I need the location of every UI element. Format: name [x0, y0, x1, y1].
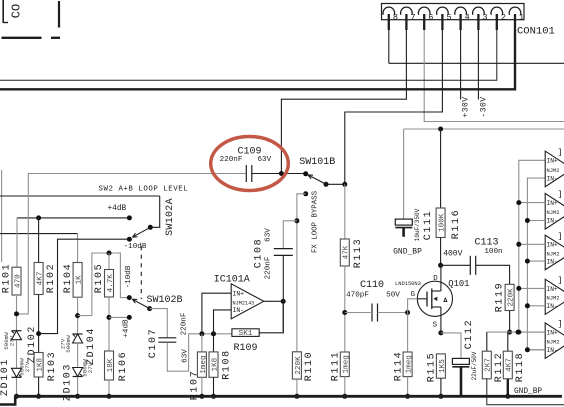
svg-text:4K7: 4K7	[506, 358, 514, 372]
svg-text:C107: C107	[148, 328, 159, 358]
svg-text:C110: C110	[360, 280, 384, 291]
svg-text:R119: R119	[495, 282, 506, 312]
svg-text:10uF/350V: 10uF/350V	[414, 208, 421, 241]
svg-text:2: 2	[501, 13, 506, 23]
svg-text:220nF: 220nF	[220, 156, 243, 164]
svg-text:]: ]	[557, 190, 562, 200]
svg-text:R103: R103	[47, 351, 58, 381]
svg-text:4K7: 4K7	[37, 272, 45, 286]
svg-text:IN+: IN+	[547, 242, 558, 249]
svg-text:R101: R101	[2, 263, 13, 293]
svg-text:CO: CO	[10, 4, 24, 18]
svg-text:SW101B: SW101B	[299, 157, 335, 168]
svg-text:IN+: IN+	[547, 158, 558, 165]
svg-text:G: G	[411, 291, 416, 299]
svg-text:NJM2143: NJM2143	[233, 301, 255, 307]
svg-text:R118: R118	[515, 352, 526, 382]
svg-text:1meg: 1meg	[200, 355, 208, 373]
svg-text:IN-: IN-	[547, 347, 558, 354]
svg-text:1meg: 1meg	[343, 355, 351, 373]
svg-text:LND150N3: LND150N3	[395, 281, 421, 287]
svg-text:NJM2: NJM2	[547, 168, 560, 174]
svg-text:220K: 220K	[295, 356, 303, 375]
svg-text:IN+: IN+	[547, 200, 558, 207]
svg-text:ZD101: ZD101	[0, 358, 11, 396]
svg-text:IN-: IN-	[547, 175, 558, 182]
svg-text:C111: C111	[423, 210, 434, 240]
svg-text:500mW: 500mW	[65, 335, 72, 353]
svg-text:220K: 220K	[508, 288, 516, 307]
svg-text:+30V: +30V	[462, 96, 471, 117]
svg-text:R105: R105	[94, 263, 105, 293]
svg-text:47K: 47K	[343, 245, 351, 259]
svg-text:C108: C108	[254, 238, 265, 268]
svg-text:]: ]	[557, 275, 562, 285]
svg-text:IN+: IN+	[547, 330, 558, 337]
svg-text:R114: R114	[393, 351, 404, 381]
svg-text:18K: 18K	[107, 358, 115, 372]
svg-text:SK1: SK1	[239, 330, 253, 338]
svg-text:100n: 100n	[484, 248, 502, 256]
svg-text:4: 4	[465, 13, 470, 23]
svg-text:IN-: IN-	[233, 307, 245, 314]
svg-text:NJM2: NJM2	[547, 296, 560, 302]
svg-text:R106: R106	[118, 351, 129, 381]
svg-text:27V: 27V	[87, 362, 94, 373]
svg-text:400V: 400V	[443, 249, 462, 258]
svg-text:C112: C112	[464, 319, 475, 349]
svg-text:-10dB: -10dB	[125, 265, 133, 288]
svg-text:5: 5	[446, 13, 451, 23]
svg-text:3: 3	[482, 13, 487, 23]
svg-text:IN+: IN+	[547, 286, 558, 293]
svg-text:NJM2: NJM2	[547, 340, 560, 346]
svg-text:1: 1	[519, 13, 524, 23]
svg-text:+4dB: +4dB	[123, 319, 131, 338]
svg-text:4.7K: 4.7K	[107, 274, 115, 293]
svg-text:GND_BP: GND_BP	[514, 388, 542, 396]
svg-text:63V: 63V	[264, 228, 272, 242]
svg-text:470: 470	[14, 274, 22, 288]
svg-text:Q101: Q101	[448, 279, 469, 289]
svg-text:]: ]	[557, 319, 562, 329]
svg-text:GND_BP: GND_BP	[393, 248, 422, 257]
svg-text:100K: 100K	[439, 213, 447, 232]
svg-text:220nF: 220nF	[264, 256, 272, 279]
svg-text:]: ]	[557, 147, 562, 157]
svg-text:D: D	[433, 275, 438, 283]
svg-text:NJM2: NJM2	[547, 251, 560, 257]
svg-text:R116: R116	[451, 209, 462, 239]
svg-text:R102: R102	[46, 263, 57, 293]
svg-text:50V: 50V	[386, 292, 400, 300]
svg-text:SW102B: SW102B	[147, 295, 183, 306]
svg-text:22uF/50V: 22uF/50V	[471, 351, 478, 380]
svg-text:470pF: 470pF	[346, 292, 369, 300]
svg-text:8: 8	[393, 13, 398, 23]
svg-text:C113: C113	[474, 238, 498, 249]
svg-text:1K5: 1K5	[439, 359, 447, 373]
svg-text:1K8: 1K8	[211, 357, 219, 371]
svg-text:27V: 27V	[9, 335, 16, 346]
svg-text:1K: 1K	[76, 275, 84, 285]
svg-text:2K7: 2K7	[485, 358, 493, 372]
svg-text:63V: 63V	[257, 156, 271, 164]
svg-text:CON101: CON101	[517, 26, 555, 38]
svg-text:R112: R112	[494, 352, 505, 382]
svg-text:1meg: 1meg	[406, 355, 414, 373]
svg-text:IN-: IN-	[547, 218, 558, 225]
svg-text:R113: R113	[353, 238, 364, 268]
svg-text:NJM2: NJM2	[547, 210, 560, 216]
svg-text:1K8: 1K8	[37, 357, 45, 371]
svg-text:6: 6	[428, 13, 433, 23]
svg-text:63V: 63V	[181, 349, 189, 363]
svg-text:R110: R110	[304, 351, 315, 381]
svg-text:FX LOOP BYPASS: FX LOOP BYPASS	[311, 190, 319, 253]
svg-text:R104: R104	[63, 263, 74, 293]
svg-text:+4dB: +4dB	[108, 205, 127, 213]
svg-text:SW102A: SW102A	[165, 198, 176, 236]
svg-text:R109: R109	[233, 343, 257, 354]
svg-text:7: 7	[410, 13, 415, 23]
svg-text:R108: R108	[222, 349, 233, 379]
svg-text:-30V: -30V	[480, 96, 489, 117]
svg-text:]: ]	[557, 231, 562, 241]
svg-text:220nF: 220nF	[180, 312, 188, 335]
svg-text:IN-: IN-	[547, 258, 558, 265]
svg-text:R115: R115	[427, 352, 438, 382]
svg-text:-10dB: -10dB	[124, 243, 147, 251]
svg-text:IC101A: IC101A	[214, 275, 250, 286]
svg-text:S: S	[433, 322, 438, 330]
svg-text:R111: R111	[331, 351, 342, 381]
svg-text:IN+: IN+	[233, 291, 245, 298]
svg-text:27V: 27V	[24, 361, 31, 372]
svg-text:SW2 A+B LOOP LEVEL: SW2 A+B LOOP LEVEL	[99, 186, 189, 194]
svg-text:IN-: IN-	[547, 303, 558, 310]
